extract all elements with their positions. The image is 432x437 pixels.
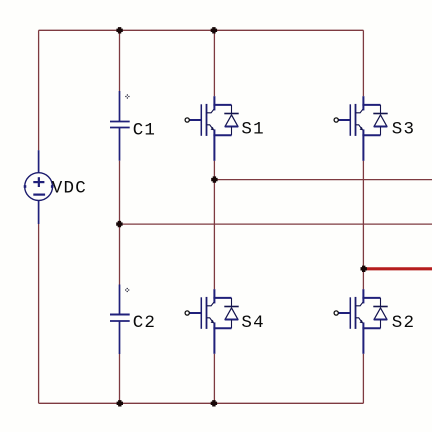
svg-text:S4: S4 bbox=[241, 313, 264, 333]
svg-text:S1: S1 bbox=[241, 119, 264, 139]
svg-text:S2: S2 bbox=[392, 313, 415, 333]
svg-text:S3: S3 bbox=[392, 119, 415, 139]
svg-text:C2: C2 bbox=[133, 313, 156, 333]
svg-text:C1: C1 bbox=[133, 120, 156, 140]
svg-text:VDC: VDC bbox=[52, 178, 87, 198]
